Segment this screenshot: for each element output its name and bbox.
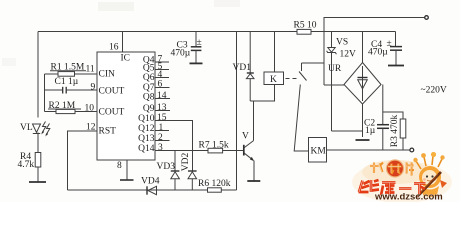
terminal bottom bbox=[410, 148, 414, 152]
svg-text:VS: VS bbox=[336, 38, 348, 48]
pin 4 stub bbox=[155, 77, 169, 79]
wire 220V hot line bbox=[324, 18, 425, 86]
pin 8 bbox=[120, 160, 134, 180]
relay coil K bbox=[264, 72, 284, 85]
svg-text:Q13: Q13 bbox=[138, 134, 155, 144]
capacitor C2 bbox=[377, 85, 389, 151]
svg-text:9: 9 bbox=[91, 83, 96, 93]
svg-text:Q10: Q10 bbox=[138, 114, 155, 124]
wire K top to rail bbox=[274, 32, 276, 73]
pin 5 stub bbox=[155, 69, 169, 71]
wire RST pin 12 bbox=[68, 131, 98, 190]
wire left frame upper bbox=[37, 32, 39, 118]
svg-text:www.dzsc.com: www.dzsc.com bbox=[374, 192, 443, 203]
relay contact bbox=[294, 63, 324, 151]
ground bridge bbox=[356, 139, 370, 141]
pin 3 wire to R7 and transistor base bbox=[155, 150, 244, 152]
svg-text:13: 13 bbox=[157, 103, 167, 113]
diode VD3 bbox=[171, 151, 180, 191]
pin 15 stub / wire to VD2 bbox=[155, 121, 193, 171]
watermark dzsc logo bbox=[352, 152, 452, 203]
resistor R1 bbox=[58, 72, 75, 77]
svg-text:CIN: CIN bbox=[99, 70, 116, 80]
wire VL to R4 bbox=[37, 133, 39, 153]
svg-text:Q6: Q6 bbox=[143, 73, 155, 83]
zhao xin pian glyphs bbox=[370, 163, 414, 176]
resistor R2 bbox=[56, 109, 75, 113]
svg-text:14: 14 bbox=[157, 91, 167, 101]
mascot body bbox=[421, 186, 439, 197]
svg-text:RST: RST bbox=[99, 127, 117, 137]
wire R4 to ground bbox=[37, 167, 39, 182]
wire R2 row bbox=[45, 111, 98, 113]
svg-text:K: K bbox=[270, 75, 277, 85]
wire bridge left AC input bbox=[324, 84, 344, 86]
wire bottom bbox=[68, 189, 237, 191]
svg-text:470µ: 470µ bbox=[171, 49, 191, 59]
svg-text:12: 12 bbox=[86, 123, 96, 133]
op-amp IC box bbox=[97, 52, 155, 160]
svg-text:12V: 12V bbox=[340, 50, 357, 60]
svg-text:COUT: COUT bbox=[99, 108, 125, 118]
svg-text:VD4: VD4 bbox=[141, 177, 160, 187]
svg-text:UR: UR bbox=[328, 64, 342, 74]
svg-text:10: 10 bbox=[85, 104, 95, 114]
wire KM to terminal bbox=[327, 149, 411, 151]
bridge rectifier UR bbox=[344, 63, 381, 105]
pin 14 stub bbox=[155, 98, 170, 100]
diode VD2 bbox=[188, 171, 197, 190]
resistor R6 bbox=[208, 188, 222, 192]
capacitor C3 bbox=[190, 32, 203, 64]
pin 7 stub bbox=[155, 61, 169, 63]
svg-text:VL: VL bbox=[20, 123, 33, 133]
svg-text:Q14: Q14 bbox=[138, 144, 155, 154]
wire supply vertical (rail to bottom wire) bbox=[236, 32, 238, 191]
resistor R5 bbox=[297, 29, 311, 34]
svg-text:R3 470k: R3 470k bbox=[390, 115, 400, 148]
pin 2 stub bbox=[155, 140, 170, 142]
svg-text:2: 2 bbox=[158, 133, 163, 143]
terminal top bbox=[425, 16, 429, 20]
svg-text:11: 11 bbox=[86, 65, 95, 75]
svg-text:Q9: Q9 bbox=[143, 104, 155, 114]
diode VD4 bbox=[147, 186, 157, 194]
svg-text:Q8: Q8 bbox=[143, 93, 155, 103]
resistor R3 bbox=[383, 112, 406, 150]
ground R4 bbox=[29, 181, 46, 183]
svg-text:4: 4 bbox=[158, 70, 163, 80]
pin 13 stub bbox=[155, 110, 170, 112]
svg-text:±: ± bbox=[197, 38, 202, 48]
wire K coil bottom jog bbox=[250, 85, 274, 102]
red circle seal bbox=[387, 160, 404, 177]
svg-text:KM: KM bbox=[311, 147, 327, 157]
mascot pen bbox=[417, 172, 441, 197]
svg-text:3: 3 bbox=[158, 143, 163, 153]
transistor V bbox=[244, 101, 260, 181]
svg-text:Q5: Q5 bbox=[143, 64, 155, 74]
IC output labels Q4-Q14 bbox=[138, 56, 155, 155]
wire bridge top to rail bbox=[362, 32, 364, 63]
svg-text:1: 1 bbox=[159, 123, 164, 133]
capacitor C1 bbox=[45, 87, 98, 94]
svg-text:VD1: VD1 bbox=[233, 63, 252, 73]
wire top +12V rail bbox=[38, 31, 396, 33]
zener VS bbox=[327, 32, 337, 132]
svg-text:IC: IC bbox=[121, 54, 131, 64]
svg-text:R5 10: R5 10 bbox=[294, 21, 317, 31]
wire bridge bottom to ground bbox=[362, 104, 364, 137]
pin 16 bbox=[122, 32, 124, 53]
node bus left bbox=[44, 74, 46, 112]
svg-text:R6 120k: R6 120k bbox=[198, 179, 231, 189]
svg-text:Q12: Q12 bbox=[138, 124, 155, 134]
resistor R4 bbox=[35, 153, 41, 168]
svg-text:V: V bbox=[242, 132, 249, 142]
dashed link K to contact bbox=[286, 78, 298, 80]
svg-text:8: 8 bbox=[117, 161, 122, 171]
pin 1 stub bbox=[155, 130, 169, 132]
svg-text:Q7: Q7 bbox=[143, 83, 155, 93]
svg-text:~220V: ~220V bbox=[421, 86, 447, 96]
LED VL bbox=[33, 122, 50, 137]
wei ku yi xia glyphs bbox=[359, 180, 426, 196]
svg-text:15: 15 bbox=[157, 113, 167, 123]
capacitor C4 bbox=[388, 32, 404, 66]
contactor coil KM bbox=[309, 138, 327, 163]
diode VD1 bbox=[246, 32, 254, 102]
svg-text:470µ: 470µ bbox=[368, 48, 388, 58]
wire zener to ground node bbox=[332, 130, 363, 132]
mascot head bbox=[419, 166, 441, 188]
svg-text:6: 6 bbox=[158, 80, 163, 90]
svg-text:COUT: COUT bbox=[99, 87, 125, 97]
wire R1 row bbox=[45, 73, 98, 75]
pin 6 stub bbox=[155, 87, 170, 89]
mascot crown spikes bbox=[416, 156, 442, 169]
svg-text:C1 1µ: C1 1µ bbox=[55, 77, 79, 87]
svg-text:VD3: VD3 bbox=[157, 162, 176, 172]
svg-text:R7 1.5k: R7 1.5k bbox=[199, 140, 229, 150]
svg-text:4.7k: 4.7k bbox=[18, 160, 35, 170]
scan smudge top bbox=[98, 2, 134, 11]
svg-text:VD2: VD2 bbox=[181, 153, 191, 172]
resistor R7 bbox=[208, 148, 223, 153]
svg-text:1µ: 1µ bbox=[365, 126, 376, 136]
svg-text:16: 16 bbox=[109, 43, 119, 53]
